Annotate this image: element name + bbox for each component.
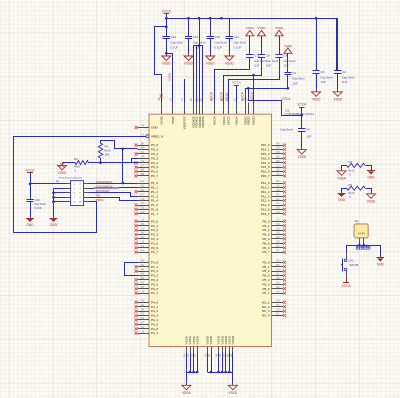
pin VSSA (bottom) — [191, 335, 196, 357]
capacitor C4 — [281, 115, 312, 147]
svg-text:VSSD: VSSD — [229, 391, 238, 395]
svg-text:P6_0: P6_0 — [262, 219, 269, 223]
pin P2_5 — [134, 241, 158, 246]
wire VCCD rail 2 — [229, 58, 280, 103]
connector pins — [66, 184, 89, 202]
svg-text:VBOOST: VBOOST — [182, 116, 186, 129]
net label VCCA (vertical) — [241, 91, 245, 101]
wire to button — [346, 245, 348, 259]
resistor R1 — [98, 143, 111, 158]
wire TMS/SWDIO — [89, 183, 138, 185]
wire to GND — [380, 245, 382, 256]
designator U3 — [285, 108, 315, 116]
svg-text:VSSD: VSSD — [257, 26, 266, 30]
svg-text:Cap Semi: Cap Semi — [283, 59, 296, 63]
wire XRES loop — [14, 137, 147, 233]
svg-text:P4_6: P4_6 — [151, 327, 158, 331]
wire R4 left — [63, 162, 76, 164]
svg-text:P3_1: P3_1 — [151, 265, 158, 269]
pin P6_2 — [262, 227, 286, 232]
svg-text:P1_5: P1_5 — [151, 203, 158, 207]
svg-text:C11: C11 — [234, 35, 240, 39]
wire VBOOST stub — [184, 79, 186, 102]
pin P4_7 — [134, 330, 158, 335]
svg-text:P15_7: P15_7 — [261, 174, 270, 178]
capacitor C12 — [163, 18, 184, 53]
svg-text:VSSB: VSSB — [159, 116, 163, 124]
wire R1 bottom / R4 — [89, 158, 138, 164]
svg-text:H1: H1 — [277, 202, 281, 205]
svg-text:VSSD: VSSD — [231, 335, 235, 344]
pin P3_4 — [134, 277, 158, 282]
svg-text:C8: C8 — [277, 227, 281, 230]
svg-text:1UF: 1UF — [254, 64, 260, 68]
pin P5_4 — [262, 277, 286, 282]
wire R2 left — [342, 166, 347, 169]
pin VSSD (bottom) — [216, 335, 221, 357]
svg-text:P1_7: P1_7 — [151, 212, 158, 216]
pin P3_5 — [134, 282, 158, 287]
svg-text:NC_3: NC_3 — [262, 309, 270, 313]
svg-text:P2_2: P2_2 — [151, 228, 158, 232]
capacitor C8 — [258, 54, 279, 68]
svg-text:VSSA: VSSA — [337, 176, 346, 180]
svg-text:TMS/SWDIO: TMS/SWDIO — [96, 180, 113, 184]
svg-text:H9: H9 — [158, 97, 161, 101]
pin P2_2 — [134, 227, 158, 232]
net label VSSD (vertical) — [167, 72, 171, 81]
svg-text:P0_1: P0_1 — [151, 148, 158, 152]
pin VDDD (top) — [242, 98, 247, 126]
svg-text:P12_5: P12_5 — [261, 203, 270, 207]
pin P4_0 — [134, 300, 158, 305]
svg-text:P0_4: P0_4 — [151, 161, 158, 165]
svg-text:P2_5: P2_5 — [151, 241, 158, 245]
svg-text:0.1UF: 0.1UF — [34, 206, 41, 210]
svg-text:VSSA: VSSA — [195, 335, 199, 344]
svg-text:P5_2: P5_2 — [262, 269, 269, 273]
svg-text:E7: E7 — [277, 180, 281, 183]
capacitor C10 — [207, 18, 228, 53]
wire bus right corner — [336, 18, 338, 71]
svg-text:CK1: CK1 — [348, 258, 354, 262]
svg-text:P4_0: P4_0 — [151, 300, 158, 304]
pin VSSD (bottom) — [223, 335, 228, 357]
pin P4_4 — [134, 317, 158, 322]
svg-text:J8: J8 — [141, 290, 144, 293]
svg-text:P12_3: P12_3 — [261, 194, 270, 198]
wire P3_0 to P3_3 — [125, 263, 138, 276]
svg-text:P0_7: P0_7 — [151, 174, 158, 178]
svg-text:B8: B8 — [208, 353, 211, 357]
power VCCA (right) — [297, 103, 307, 117]
svg-text:Cap Semi: Cap Semi — [342, 75, 355, 79]
svg-text:P5_6: P5_6 — [262, 287, 269, 291]
svg-text:VSSD: VSSD — [297, 155, 306, 159]
wire R3 right — [366, 189, 372, 192]
svg-text:GND: GND — [151, 126, 159, 130]
svg-text:VDDD: VDDD — [247, 116, 251, 126]
wire VCCD rail 1 — [224, 58, 262, 103]
pin P0_4 — [134, 160, 158, 165]
pin VSSB (bottom) — [204, 336, 209, 357]
svg-text:NC_4: NC_4 — [262, 314, 270, 318]
svg-text:A3: A3 — [277, 290, 281, 293]
pin P12_2 — [261, 189, 286, 194]
svg-text:0.1UF: 0.1UF — [215, 45, 223, 49]
svg-text:F6: F6 — [194, 353, 197, 356]
pin P4_6 — [134, 326, 158, 331]
svg-text:0: 0 — [75, 169, 77, 173]
pin P1_6 — [134, 207, 158, 212]
power VCCA (left) — [26, 169, 36, 184]
svg-text:Rm3: Rm3 — [74, 165, 80, 169]
svg-text:P5_0: P5_0 — [262, 260, 269, 264]
svg-text:XRES_N: XRES_N — [151, 134, 163, 138]
svg-text:VSSD: VSSD — [367, 199, 376, 203]
power VSSD (above C1) — [284, 44, 293, 72]
pin P5_3 — [262, 273, 286, 278]
pin VSSA (bottom) — [187, 335, 192, 357]
svg-text:P3_7: P3_7 — [151, 291, 158, 295]
svg-text:P2_4: P2_4 — [151, 237, 158, 241]
svg-text:J3: J3 — [141, 227, 144, 230]
pin VSSB (top) — [158, 97, 163, 124]
svg-text:B9: B9 — [141, 308, 145, 311]
svg-text:VDDA: VDDA — [235, 115, 239, 125]
svg-text:VSSD: VSSD — [206, 62, 215, 66]
net label VCCA (vertical) — [219, 91, 223, 101]
svg-text:P6_7: P6_7 — [262, 250, 269, 254]
pin P5_2 — [262, 268, 286, 273]
svg-text:P12_7: P12_7 — [261, 212, 270, 216]
pin VDDIO0 (top) — [190, 98, 195, 128]
svg-text:Cap Semi: Cap Semi — [292, 77, 305, 81]
svg-text:P5_5: P5_5 — [262, 282, 269, 286]
pin P6_5 — [262, 241, 286, 246]
power VSSD (R3) — [367, 191, 377, 203]
wire TDO/SWO — [89, 193, 138, 197]
wire VDDD rail — [246, 75, 290, 103]
wire VSSD bottom join — [207, 353, 233, 383]
wire R1 top to P0_1 — [101, 141, 138, 151]
svg-text:P5_7: P5_7 — [262, 291, 269, 295]
svg-text:G1: G1 — [141, 133, 145, 136]
wire VCCA rail down — [30, 184, 32, 199]
capacitor C2 — [334, 18, 355, 89]
wire VSSA bottom join — [186, 353, 198, 383]
svg-text:P4_3: P4_3 — [151, 314, 158, 318]
net label VCCA (vertical) — [210, 91, 214, 101]
svg-text:P1_0: P1_0 — [151, 181, 158, 185]
pin P2_1 — [134, 223, 158, 228]
designator P2 — [56, 178, 82, 184]
power VSSA (R2) — [337, 168, 347, 180]
pin P2_0 — [134, 219, 158, 224]
svg-text:P6_5: P6_5 — [262, 241, 269, 245]
wire GND rail — [52, 188, 65, 216]
pin P1_7 — [134, 211, 158, 216]
pin VDDIO3 (top) — [200, 98, 205, 128]
IC U3 CY8C58 body — [149, 114, 272, 346]
pin P3_2 — [134, 268, 158, 273]
pin VDDA (top) — [233, 98, 238, 125]
svg-text:P3_4: P3_4 — [151, 278, 158, 282]
svg-text:VCCA: VCCA — [232, 81, 240, 85]
pin P15_7 — [261, 173, 286, 178]
pin P3_7 — [134, 290, 158, 295]
svg-text:P15_1: P15_1 — [261, 148, 270, 152]
svg-text:GND: GND — [50, 223, 58, 227]
svg-text:C4: C4 — [283, 54, 287, 58]
svg-text:P1_1: P1_1 — [151, 186, 158, 190]
svg-text:1UF: 1UF — [266, 64, 272, 68]
power GND (R2) — [367, 169, 375, 180]
net label VSSA (vertical) — [225, 92, 229, 101]
wire VDD cluster — [193, 18, 203, 102]
pin VSSD (bottom) — [219, 335, 224, 357]
net label VCCA (vertical) — [250, 91, 254, 101]
pin P0_5 — [134, 164, 158, 169]
svg-text:Cap Semi: Cap Semi — [34, 202, 46, 206]
pin GND — [134, 125, 158, 130]
svg-text:1UF: 1UF — [320, 80, 326, 84]
svg-text:1UF: 1UF — [283, 64, 289, 68]
capacitor C30 — [26, 198, 46, 217]
svg-text:B4: B4 — [183, 353, 186, 357]
svg-text:G7: G7 — [181, 97, 184, 101]
pin NC_1 — [262, 300, 286, 305]
svg-text:P15_2: P15_2 — [261, 152, 270, 156]
svg-text:4S-P4: 4S-P4 — [358, 232, 366, 235]
svg-text:P0_0: P0_0 — [151, 143, 158, 147]
capacitor C6 — [313, 18, 334, 89]
wire SWDIO vertical — [122, 149, 125, 185]
svg-text:C4: C4 — [277, 268, 281, 271]
svg-text:VSSA: VSSA — [182, 391, 191, 395]
svg-text:P6_4: P6_4 — [262, 237, 269, 241]
svg-text:TDO/SWO: TDO/SWO — [96, 189, 111, 193]
pin P12_4 — [261, 198, 286, 203]
power VCCA (bottom right) — [342, 283, 352, 289]
power GND (bottom right) — [377, 256, 385, 267]
svg-text:VSSD: VSSD — [167, 72, 171, 81]
pin P5_7 — [262, 290, 286, 295]
resistor R3 — [347, 183, 366, 199]
pin P1_2 — [134, 189, 158, 194]
pin VDDD (top) — [251, 98, 256, 125]
svg-text:TDI: TDI — [96, 194, 101, 198]
pin VSSA (bottom) — [194, 335, 199, 356]
capacitor C11 — [226, 18, 247, 53]
svg-text:P0_2: P0_2 — [151, 152, 158, 156]
svg-text:R1: R1 — [105, 145, 109, 149]
svg-text:Cap Semi: Cap Semi — [215, 41, 228, 45]
svg-text:VSSD: VSSD — [284, 44, 293, 48]
svg-text:VCCA: VCCA — [297, 103, 307, 107]
svg-text:P4_2: P4_2 — [151, 309, 158, 313]
svg-text:P2_6: P2_6 — [151, 246, 158, 250]
pin P12_5 — [261, 202, 286, 207]
pin VSSA (bottom) — [183, 335, 188, 357]
svg-text:XRES: XRES — [96, 198, 104, 202]
svg-text:P15_3: P15_3 — [261, 156, 270, 160]
pin P12_1 — [261, 185, 286, 190]
svg-text:P12_0: P12_0 — [261, 181, 270, 185]
pin P3_1 — [134, 264, 158, 269]
svg-text:VCCA: VCCA — [282, 97, 292, 101]
svg-text:P2_1: P2_1 — [151, 224, 158, 228]
capacitor C1 — [284, 71, 305, 85]
pin P6_1 — [262, 223, 286, 228]
svg-text:Rm3: Rm3 — [348, 191, 354, 195]
svg-text:P3_3: P3_3 — [151, 274, 158, 278]
pin P5_6 — [262, 286, 286, 291]
svg-text:P2_3: P2_3 — [151, 233, 158, 237]
pin P5_0 — [262, 260, 286, 265]
pin P15_6 — [261, 169, 286, 174]
svg-text:P6_2: P6_2 — [262, 228, 269, 232]
svg-text:P0_6: P0_6 — [151, 170, 158, 174]
wire R2 right — [366, 166, 372, 170]
pin P12_6 — [261, 207, 286, 212]
power VSSD (top right) — [275, 26, 284, 54]
svg-text:P2: P2 — [56, 180, 60, 184]
pin P15_1 — [261, 147, 286, 152]
pin P6_7 — [262, 249, 286, 254]
svg-text:B9: B9 — [141, 142, 145, 145]
net label TMS/SWDIO — [96, 180, 113, 184]
svg-text:P12_6: P12_6 — [261, 208, 270, 212]
svg-text:F7: F7 — [277, 249, 280, 252]
svg-text:P5_4: P5_4 — [262, 278, 269, 282]
svg-text:H2: H2 — [204, 353, 207, 357]
svg-text:GND: GND — [26, 223, 34, 227]
svg-text:P12_4: P12_4 — [261, 199, 270, 203]
pin P5_5 — [262, 282, 286, 287]
pin P2_3 — [134, 232, 158, 237]
net label TDO/SWO — [96, 189, 111, 193]
svg-text:10K: 10K — [105, 153, 110, 157]
power VSSA (bottom) — [182, 383, 192, 395]
power VSSD (top right) — [257, 26, 266, 54]
power VSSD (under C13) — [184, 53, 194, 65]
power VSSD (under C11) — [225, 53, 235, 65]
pin P2_4 — [134, 236, 158, 241]
svg-text:P1: P1 — [355, 219, 359, 223]
svg-text:VCCA: VCCA — [162, 10, 172, 14]
svg-text:P1_2: P1_2 — [151, 190, 158, 194]
svg-text:L2: L2 — [277, 164, 280, 167]
pin VSSD (bottom) — [226, 335, 231, 357]
power VCCA (above VDDA) — [232, 81, 240, 103]
pin VCCD (top) — [221, 98, 226, 126]
power VSSD (under C2) — [333, 89, 343, 101]
net label XRES — [96, 198, 104, 202]
power VSSD (under C12) — [162, 53, 172, 65]
power VCCA (top) — [162, 10, 172, 19]
button CK1 — [341, 258, 359, 271]
pin P3_3 — [138, 273, 159, 278]
svg-text:H5: H5 — [219, 353, 222, 357]
svg-text:R2: R2 — [348, 160, 352, 164]
label power port (chinese) — [356, 246, 370, 249]
svg-text:C1: C1 — [292, 71, 296, 75]
capacitor C11 — [246, 54, 267, 68]
svg-text:SW-PB: SW-PB — [349, 263, 358, 267]
svg-text:P12_1: P12_1 — [261, 186, 270, 190]
svg-text:VDDD: VDDD — [252, 116, 256, 126]
pin P4_2 — [134, 308, 158, 313]
pin VCCA (top) — [211, 97, 216, 125]
connector P2 body — [71, 181, 84, 206]
svg-text:Cap Semi: Cap Semi — [281, 128, 294, 132]
wire P1 leads — [346, 238, 380, 247]
pin P1_5 — [134, 202, 158, 207]
connector P1 body — [354, 219, 368, 238]
svg-text:VSSD: VSSD — [225, 62, 234, 66]
power VSSA (top right) — [246, 26, 254, 54]
svg-text:P4_7: P4_7 — [151, 331, 158, 335]
svg-text:R3: R3 — [348, 183, 352, 187]
svg-text:K7: K7 — [187, 353, 190, 357]
power GND (left 1) — [26, 216, 34, 227]
pin P4_1 — [134, 304, 158, 309]
pin P3_6 — [134, 286, 158, 291]
svg-text:Rm3: Rm3 — [105, 149, 111, 153]
svg-text:P2_7: P2_7 — [151, 250, 158, 254]
svg-text:VSSD: VSSD — [333, 97, 342, 101]
svg-text:0.1UF: 0.1UF — [234, 45, 242, 49]
svg-text:P15_5: P15_5 — [261, 165, 270, 169]
pin P1_1 — [138, 185, 159, 190]
svg-text:0: 0 — [349, 195, 351, 199]
svg-text:VCCD: VCCD — [227, 116, 231, 126]
svg-text:NC_2: NC_2 — [262, 305, 270, 309]
svg-text:P5_1: P5_1 — [262, 265, 269, 269]
pin P12_0 — [261, 180, 286, 185]
svg-text:VCCD: VCCD — [222, 116, 226, 126]
power VSSD (under C4) — [297, 147, 307, 159]
svg-text:C9: C9 — [277, 308, 281, 311]
svg-text:Cap Semi: Cap Semi — [234, 41, 247, 45]
svg-text:PTS0-105-01-048-DV-H: PTS0-105-01-048-DV-H — [59, 178, 83, 180]
pin VCCD (top) — [225, 98, 230, 126]
svg-text:G7: G7 — [141, 164, 145, 167]
svg-text:CY8C5888AXI-LP214: CY8C5888AXI-LP214 — [285, 112, 315, 116]
svg-text:0: 0 — [349, 172, 351, 176]
pin P6_6 — [262, 245, 286, 250]
svg-text:Cap Semi: Cap Semi — [171, 41, 184, 45]
svg-text:VDDIO3: VDDIO3 — [201, 116, 205, 128]
svg-text:P0_3: P0_3 — [151, 156, 158, 160]
resistor R4 — [74, 157, 89, 172]
svg-text:TCK/SWDCK: TCK/SWDCK — [96, 185, 113, 189]
pin P1_4 — [138, 198, 159, 203]
capacitor C4 — [276, 54, 297, 68]
net label TCK/SWDCK — [96, 185, 113, 189]
svg-text:C2: C2 — [342, 70, 346, 74]
svg-text:K7: K7 — [141, 193, 145, 196]
svg-text:VCCA: VCCA — [26, 169, 36, 173]
pin P15_5 — [261, 164, 286, 169]
pin P12_7 — [261, 211, 286, 216]
svg-text:VSSD: VSSD — [162, 62, 171, 66]
svg-text:R4: R4 — [74, 157, 78, 161]
svg-text:P4_5: P4_5 — [151, 322, 158, 326]
svg-text:P1_4: P1_4 — [151, 199, 158, 203]
pin P6_3 — [262, 232, 286, 237]
